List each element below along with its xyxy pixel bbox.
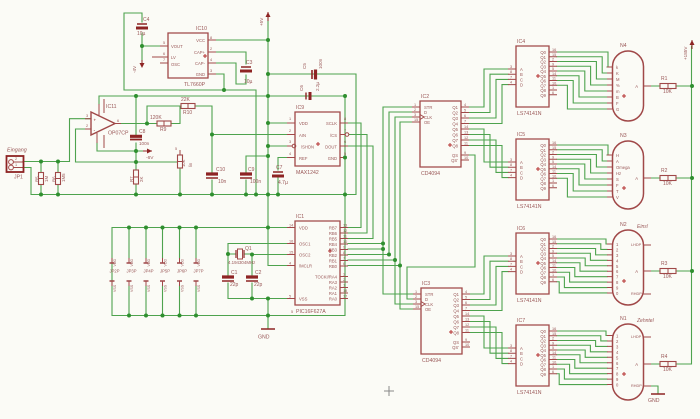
svg-text:-: -	[94, 128, 96, 134]
svg-text:Q2: Q2	[452, 111, 458, 116]
svg-text:9: 9	[552, 341, 554, 345]
svg-text:15: 15	[414, 118, 418, 122]
svg-text:GND: GND	[328, 156, 337, 161]
svg-text:9: 9	[552, 249, 554, 253]
svg-text:IC9: IC9	[296, 105, 304, 111]
svg-text:10: 10	[552, 268, 556, 272]
svg-text:7: 7	[510, 354, 512, 358]
svg-text:C3: C3	[246, 60, 253, 66]
svg-text:6: 6	[552, 91, 554, 95]
svg-text:16: 16	[289, 240, 293, 244]
svg-text:H: H	[616, 153, 619, 158]
svg-text:RA0: RA0	[329, 297, 338, 302]
svg-text:VSS: VSS	[147, 284, 151, 292]
svg-text:8: 8	[344, 117, 346, 121]
svg-text:+185V: +185V	[683, 46, 688, 60]
svg-text:5: 5	[552, 67, 554, 71]
svg-text:IC2: IC2	[421, 94, 429, 100]
svg-text:S: S	[616, 177, 619, 182]
svg-text:Q8: Q8	[452, 144, 458, 149]
svg-text:T: T	[616, 189, 619, 194]
svg-text:3: 3	[510, 65, 512, 69]
svg-text:+: +	[94, 118, 97, 123]
svg-text:m: m	[616, 89, 620, 94]
svg-text:R2: R2	[661, 168, 668, 174]
svg-text:AIN: AIN	[299, 133, 306, 138]
svg-text:RB4: RB4	[329, 242, 338, 247]
svg-text:1M: 1M	[44, 176, 49, 182]
svg-text:14: 14	[552, 259, 556, 263]
svg-text:15: 15	[289, 251, 293, 255]
svg-text:DOUT: DOUT	[325, 145, 337, 150]
svg-text:5: 5	[175, 147, 177, 151]
svg-text:6: 6	[343, 262, 345, 266]
svg-text:R6: R6	[52, 176, 57, 182]
svg-text:C6: C6	[299, 85, 304, 91]
svg-text:LS74141N: LS74141N	[517, 204, 542, 210]
svg-text:5: 5	[465, 296, 467, 300]
svg-text:12: 12	[464, 136, 468, 140]
svg-text:10: 10	[552, 174, 556, 178]
svg-text:LS74141N: LS74141N	[517, 298, 542, 304]
svg-text:2: 2	[552, 151, 554, 155]
svg-text:VSS: VSS	[299, 297, 308, 302]
svg-text:10K: 10K	[663, 274, 673, 280]
svg-text:Q7: Q7	[453, 325, 459, 330]
svg-text:IC11: IC11	[106, 104, 117, 110]
svg-text:5: 5	[464, 109, 466, 113]
svg-text:Q8: Q8	[453, 331, 459, 336]
svg-text:2: 2	[552, 337, 554, 341]
svg-text:2.2µ: 2.2µ	[315, 82, 320, 91]
svg-text:11: 11	[552, 77, 556, 81]
svg-text:11: 11	[343, 235, 347, 239]
svg-text:1: 1	[414, 103, 416, 107]
svg-text:9: 9	[552, 155, 554, 159]
svg-text:LS74141N: LS74141N	[517, 390, 542, 396]
svg-text:1: 1	[552, 365, 554, 369]
svg-text:7: 7	[464, 120, 466, 124]
svg-text:100n: 100n	[318, 58, 323, 69]
svg-text:Q5: Q5	[453, 314, 459, 319]
svg-text:Q6: Q6	[453, 320, 459, 325]
svg-text:1: 1	[343, 284, 345, 288]
svg-text:A: A	[635, 84, 638, 89]
svg-text:13: 13	[465, 318, 469, 322]
svg-text:1: 1	[415, 290, 417, 294]
svg-text:VDD: VDD	[299, 121, 308, 126]
svg-text:VSS: VSS	[197, 284, 201, 292]
svg-text:120K: 120K	[150, 115, 162, 121]
svg-text:JP5P: JP5P	[160, 269, 170, 274]
svg-text:2: 2	[414, 108, 416, 112]
svg-text:4: 4	[510, 81, 512, 85]
svg-text:8: 8	[343, 251, 345, 255]
svg-text:D: D	[520, 176, 523, 181]
svg-text:7: 7	[510, 168, 512, 172]
svg-text:C10: C10	[216, 167, 225, 173]
svg-text:Q4: Q4	[452, 122, 458, 127]
svg-text:15: 15	[552, 240, 556, 244]
svg-text:6: 6	[344, 140, 346, 144]
svg-text:3: 3	[343, 273, 345, 277]
svg-text:VDD: VDD	[197, 259, 201, 267]
svg-text:IC5: IC5	[517, 132, 525, 138]
svg-text:C8: C8	[139, 129, 146, 135]
svg-text:RB5: RB5	[329, 237, 338, 242]
svg-text:4: 4	[510, 360, 512, 364]
svg-text:10µ: 10µ	[244, 79, 253, 85]
svg-text:SCLK: SCLK	[326, 121, 337, 126]
svg-text:K: K	[616, 71, 619, 76]
svg-text:C5: C5	[302, 63, 307, 69]
svg-text:10: 10	[465, 343, 469, 347]
svg-text:4: 4	[510, 174, 512, 178]
svg-text:9: 9	[552, 62, 554, 66]
svg-text:JP6P: JP6P	[177, 269, 187, 274]
svg-text:4: 4	[289, 152, 291, 156]
svg-text:7: 7	[465, 307, 467, 311]
svg-text:Q7: Q7	[452, 138, 458, 143]
svg-text:15: 15	[552, 332, 556, 336]
svg-text:Eins!: Eins!	[637, 224, 649, 230]
svg-text:IC10: IC10	[196, 26, 207, 32]
svg-text:12: 12	[465, 323, 469, 327]
svg-text:RB0: RB0	[329, 264, 338, 269]
svg-text:C1: C1	[231, 270, 238, 276]
svg-text:10: 10	[343, 240, 347, 244]
svg-text:Eingang: Eingang	[7, 148, 27, 154]
svg-text:CAP-: CAP-	[195, 61, 206, 66]
svg-text:9: 9	[465, 338, 467, 342]
svg-text:Q1: Q1	[453, 292, 459, 297]
svg-text:2: 2	[15, 157, 17, 161]
svg-text:IC7: IC7	[517, 318, 525, 324]
svg-text:14: 14	[464, 125, 468, 129]
svg-text:N3: N3	[620, 133, 627, 139]
svg-text:RA1: RA1	[329, 291, 338, 296]
svg-text:11: 11	[465, 329, 469, 333]
svg-text:Q9: Q9	[540, 93, 546, 98]
svg-text:C9: C9	[248, 167, 255, 173]
svg-text:VSS: VSS	[113, 284, 117, 292]
svg-text:D: D	[520, 83, 523, 88]
svg-text:1: 1	[552, 179, 554, 183]
svg-text:2: 2	[86, 124, 88, 128]
svg-text:-6V: -6V	[146, 155, 154, 161]
svg-text:Q9: Q9	[540, 372, 546, 377]
svg-text:4: 4	[210, 58, 212, 62]
svg-text:6: 6	[552, 184, 554, 188]
svg-text:4.7µ: 4.7µ	[278, 180, 288, 186]
svg-text:16: 16	[552, 141, 556, 145]
svg-text:7: 7	[344, 129, 346, 133]
svg-text:RB2: RB2	[329, 253, 338, 258]
svg-text:VDD: VDD	[147, 259, 151, 267]
svg-text:1M5: 1M5	[61, 173, 66, 182]
svg-text:12: 12	[343, 229, 347, 233]
svg-text:5: 5	[552, 160, 554, 164]
svg-text:11: 11	[552, 170, 556, 174]
svg-text:JP1: JP1	[14, 175, 23, 181]
svg-text:22p: 22p	[230, 282, 239, 288]
svg-text:4: 4	[465, 290, 467, 294]
svg-text:14: 14	[552, 165, 556, 169]
svg-text:6: 6	[163, 52, 165, 56]
svg-text:N2: N2	[620, 222, 627, 228]
svg-text:10n: 10n	[218, 179, 227, 185]
svg-text:OSC1: OSC1	[299, 242, 311, 247]
svg-text:V: V	[616, 195, 619, 200]
svg-text:3: 3	[415, 300, 417, 304]
svg-text:6: 6	[117, 119, 119, 123]
svg-text:14: 14	[289, 224, 293, 228]
svg-text:100n: 100n	[139, 141, 150, 146]
svg-text:2K: 2K	[139, 177, 144, 182]
svg-text:D: D	[520, 362, 523, 367]
svg-text:R4: R4	[661, 354, 668, 360]
svg-text:8: 8	[210, 36, 212, 40]
svg-text:5: 5	[552, 346, 554, 350]
svg-text:6: 6	[465, 301, 467, 305]
svg-text:4: 4	[510, 268, 512, 272]
svg-text:9: 9	[464, 151, 466, 155]
svg-text:VSS: VSS	[181, 284, 185, 292]
svg-text:C7: C7	[276, 165, 283, 171]
svg-text:10K: 10K	[663, 181, 673, 187]
svg-text:RA3: RA3	[329, 280, 338, 285]
svg-text:15: 15	[552, 53, 556, 57]
svg-text:10K: 10K	[663, 89, 673, 95]
svg-text:2: 2	[343, 278, 345, 282]
svg-text:11: 11	[552, 356, 556, 360]
svg-text:QS': QS'	[451, 158, 458, 163]
svg-text:VSS: VSS	[164, 284, 168, 292]
svg-text:5: 5	[291, 310, 293, 314]
svg-text:N4: N4	[620, 43, 627, 49]
svg-text:Q3: Q3	[453, 303, 459, 308]
svg-text:15: 15	[552, 146, 556, 150]
svg-text:13: 13	[343, 224, 347, 228]
svg-text:CAP+: CAP+	[194, 50, 206, 55]
svg-text:VDD: VDD	[181, 259, 185, 267]
svg-text:8: 8	[510, 349, 512, 353]
svg-text:OP07CP: OP07CP	[108, 131, 129, 137]
svg-text:REF: REF	[299, 156, 308, 161]
svg-text:R1: R1	[661, 76, 668, 82]
svg-text:OSC2: OSC2	[299, 253, 311, 258]
svg-text:M: M	[616, 77, 620, 82]
svg-text:A: A	[635, 269, 638, 274]
svg-text:1: 1	[552, 273, 554, 277]
svg-text:N1: N1	[620, 316, 627, 322]
svg-text:VDD: VDD	[113, 259, 117, 267]
svg-text:11: 11	[464, 142, 468, 146]
svg-text:9: 9	[343, 246, 345, 250]
svg-text:R3: R3	[661, 261, 668, 267]
svg-text:GND: GND	[258, 335, 270, 341]
svg-text:3: 3	[510, 158, 512, 162]
svg-text:TOCKI/RA4: TOCKI/RA4	[315, 275, 338, 280]
svg-text:/CS: /CS	[330, 133, 337, 138]
svg-text:/SHDN: /SHDN	[301, 145, 314, 150]
svg-text:6: 6	[552, 370, 554, 374]
svg-text:8: 8	[510, 257, 512, 261]
svg-text:14: 14	[552, 72, 556, 76]
svg-text:Q9: Q9	[540, 186, 546, 191]
svg-text:C4: C4	[143, 17, 150, 23]
svg-text:1: 1	[552, 86, 554, 90]
svg-text:1: 1	[289, 117, 291, 121]
svg-text:IC4: IC4	[517, 39, 525, 45]
svg-text:Q5: Q5	[452, 127, 458, 132]
svg-text:3: 3	[289, 140, 291, 144]
svg-text:lin: lin	[188, 162, 193, 167]
svg-text:Q4: Q4	[453, 309, 459, 314]
svg-text:IC6: IC6	[517, 226, 525, 232]
svg-text:13: 13	[464, 131, 468, 135]
svg-text:D: D	[520, 270, 523, 275]
svg-text:7: 7	[343, 257, 345, 261]
svg-text:3: 3	[510, 252, 512, 256]
svg-text:PIC16F627A: PIC16F627A	[296, 309, 326, 315]
svg-text:LV: LV	[171, 55, 176, 60]
svg-text:R10: R10	[183, 110, 192, 116]
svg-text:14: 14	[552, 351, 556, 355]
svg-text:2: 2	[415, 295, 417, 299]
svg-text:RB3: RB3	[329, 248, 338, 253]
svg-text:7: 7	[163, 58, 165, 62]
svg-text:OE: OE	[425, 307, 431, 312]
svg-text:Hz: Hz	[616, 171, 621, 176]
svg-text:VCC: VCC	[196, 38, 205, 43]
svg-text:5: 5	[289, 295, 291, 299]
svg-text:16: 16	[552, 48, 556, 52]
svg-text:14: 14	[465, 312, 469, 316]
svg-text:VDD: VDD	[299, 226, 308, 231]
svg-text:6: 6	[464, 114, 466, 118]
svg-text:+5V: +5V	[259, 17, 264, 26]
svg-text:4: 4	[464, 103, 466, 107]
svg-text:Q3: Q3	[452, 116, 458, 121]
svg-text:LS74141N: LS74141N	[517, 111, 542, 117]
svg-text:Q1: Q1	[245, 246, 252, 252]
svg-text:5: 5	[344, 152, 346, 156]
svg-text:RB6: RB6	[329, 231, 338, 236]
svg-text:4.194304MHz: 4.194304MHz	[228, 260, 255, 265]
svg-text:22K: 22K	[181, 97, 191, 103]
svg-text:RB1: RB1	[329, 259, 338, 264]
svg-text:10K: 10K	[181, 159, 186, 167]
svg-text:Q9: Q9	[540, 280, 546, 285]
svg-text:JP4P: JP4P	[144, 269, 154, 274]
svg-text:3: 3	[510, 344, 512, 348]
svg-text:F: F	[616, 101, 619, 106]
svg-text:GND: GND	[648, 398, 660, 404]
svg-text:%: %	[616, 83, 620, 88]
svg-text:5: 5	[163, 41, 165, 45]
svg-text:G: G	[616, 107, 619, 112]
svg-text:7: 7	[510, 262, 512, 266]
svg-text:3: 3	[414, 113, 416, 117]
svg-text:A: A	[616, 159, 619, 164]
svg-text:OE: OE	[424, 120, 430, 125]
svg-text:F: F	[616, 183, 619, 188]
svg-text:R5: R5	[35, 176, 40, 182]
svg-text:3: 3	[210, 69, 212, 73]
svg-text:15: 15	[415, 305, 419, 309]
svg-text:16: 16	[552, 235, 556, 239]
svg-text:IC3: IC3	[422, 281, 430, 287]
svg-text:JP3P: JP3P	[127, 269, 137, 274]
svg-text:R9: R9	[160, 127, 167, 133]
svg-text:LHDP: LHDP	[631, 335, 642, 339]
svg-text:1: 1	[15, 163, 17, 167]
svg-text:2: 2	[289, 129, 291, 133]
svg-text:22p: 22p	[254, 282, 263, 288]
svg-text:C2: C2	[255, 270, 262, 276]
svg-text:TL7660P: TL7660P	[184, 82, 206, 88]
svg-text:/MCLR: /MCLR	[299, 264, 312, 269]
svg-text:VOUT: VOUT	[171, 44, 183, 49]
svg-text:RHDP: RHDP	[631, 292, 642, 296]
svg-text:2: 2	[210, 47, 212, 51]
svg-text:18: 18	[343, 289, 347, 293]
svg-text:4: 4	[289, 262, 291, 266]
svg-text:IC1: IC1	[296, 214, 304, 220]
svg-text:2: 2	[552, 245, 554, 249]
svg-text:RHDP: RHDP	[631, 384, 642, 388]
svg-text:-4V: -4V	[132, 65, 137, 73]
svg-text:8: 8	[510, 163, 512, 167]
svg-text:MAX1242: MAX1242	[296, 170, 319, 176]
svg-text:B: B	[616, 95, 619, 100]
svg-text:Q2: Q2	[453, 298, 459, 303]
svg-text:8: 8	[510, 70, 512, 74]
svg-text:QS': QS'	[452, 345, 459, 350]
svg-text:GND: GND	[196, 72, 205, 77]
svg-text:CD4094: CD4094	[421, 171, 440, 177]
svg-text:10µ: 10µ	[137, 31, 146, 37]
svg-text:VDD: VDD	[130, 259, 134, 267]
svg-text:A: A	[635, 362, 638, 367]
svg-text:11: 11	[552, 264, 556, 268]
svg-text:10: 10	[552, 81, 556, 85]
svg-text:100n: 100n	[250, 179, 261, 185]
svg-text:Q1: Q1	[452, 105, 458, 110]
svg-text:Zehntel: Zehntel	[636, 318, 655, 324]
svg-text:VDD: VDD	[164, 259, 168, 267]
svg-text:7: 7	[510, 75, 512, 79]
svg-text:5: 5	[552, 254, 554, 258]
svg-text:16: 16	[552, 327, 556, 331]
svg-text:Q6: Q6	[452, 133, 458, 138]
svg-text:OSC: OSC	[171, 62, 180, 67]
svg-text:A: A	[635, 176, 638, 181]
svg-text:RA2: RA2	[329, 286, 338, 291]
svg-text:3: 3	[86, 114, 88, 118]
svg-text:10: 10	[464, 156, 468, 160]
svg-text:LHDP: LHDP	[631, 243, 642, 247]
svg-text:VSS: VSS	[130, 284, 134, 292]
svg-text:JP2P: JP2P	[110, 269, 120, 274]
svg-text:10K: 10K	[663, 367, 673, 373]
svg-text:2: 2	[552, 58, 554, 62]
svg-text:Omega: Omega	[616, 165, 630, 170]
svg-text:JP7P: JP7P	[194, 269, 204, 274]
svg-text:10: 10	[552, 360, 556, 364]
svg-text:RB7: RB7	[329, 226, 338, 231]
